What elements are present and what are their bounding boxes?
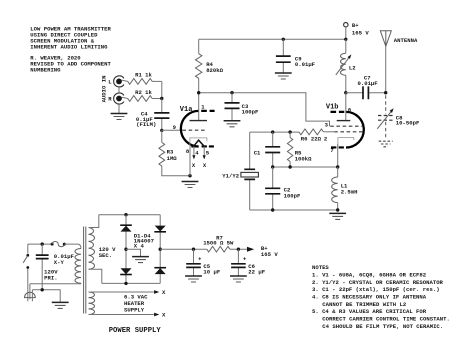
svg-text:100pF: 100pF (242, 109, 259, 116)
node bridge top (124, 213, 127, 216)
node C1 top (271, 130, 274, 133)
svg-text:4: 4 (195, 149, 199, 156)
V1a cathode sleeve box (190, 138, 207, 146)
node bridge minus (124, 248, 127, 251)
transformer T1 primary (75, 249, 81, 284)
svg-text:7: 7 (330, 147, 333, 154)
node C2 bottom (271, 208, 274, 211)
terminal B+ 165V (344, 23, 348, 27)
svg-text:22 µF: 22 µF (248, 268, 265, 275)
wire bridge top rail (99, 214, 160, 216)
transformer T1 core (84, 227, 86, 314)
inductor L2 variable (345, 39, 347, 92)
node cathode/L1 (336, 165, 339, 168)
node R5/R6 top (288, 130, 291, 133)
V1a heater pin 5 lead with arrow (203, 146, 205, 155)
svg-text:C1: C1 (254, 150, 261, 157)
svg-text:POWER SUPPLY: POWER SUPPLY (109, 327, 162, 335)
svg-text:L: L (108, 79, 112, 86)
svg-text:X: X (203, 162, 207, 169)
node C9 top rail (282, 38, 285, 41)
switch S1 (27, 244, 29, 254)
wire bridge bottom rail (102, 282, 160, 284)
svg-text:R6 22Ω: R6 22Ω (301, 135, 322, 142)
svg-text:R2 1k: R2 1k (135, 89, 152, 96)
node bridge plus (159, 248, 162, 251)
wire mains hot top (28, 243, 52, 245)
wire B+ output (160, 248, 247, 250)
svg-text:8: 8 (186, 148, 190, 155)
wire heater lead X bottom (89, 314, 154, 316)
inductor L1 (337, 167, 339, 210)
svg-text:L2: L2 (349, 64, 356, 71)
svg-text:X: X (192, 162, 196, 169)
capacitor C5 electrolytic (193, 249, 195, 276)
resistor R7 (207, 246, 230, 252)
svg-text:R: R (108, 96, 112, 103)
svg-text:165 V: 165 V (261, 251, 278, 258)
svg-text:2: 2 (324, 135, 328, 142)
ground L1 (329, 212, 346, 214)
V1b control grid pin 2 dashed (323, 131, 334, 133)
svg-text:10-50pF: 10-50pF (396, 120, 420, 127)
svg-text:SEC.: SEC. (99, 252, 112, 259)
capacitor C2 (272, 167, 274, 210)
V1a grid dashed (pin 9) (182, 129, 206, 131)
transformer T1 secondary 120V (89, 228, 95, 270)
svg-text:NOTES1. V1 - 6U8A, 6CQ8, 6GH8A: NOTES1. V1 - 6U8A, 6CQ8, 6GH8A OR ECF822… (312, 264, 450, 330)
wire antenna lead (385, 46, 387, 92)
fuse F1 (51, 243, 54, 246)
wire oscillator bottom rail (250, 209, 338, 211)
V1a heater filament (194, 140, 205, 146)
ground mains (52, 301, 69, 303)
svg-text:PRI.: PRI. (44, 275, 57, 282)
wire jack shells to ground (118, 87, 120, 114)
svg-text:AUDIO IN: AUDIO IN (101, 76, 108, 103)
node antenna/C7/C8 (384, 91, 387, 94)
node R5 bottom (288, 165, 291, 168)
V1b envelope arc (346, 112, 364, 148)
wire top rail B+ distribution (199, 38, 346, 40)
wire oscillator top node (250, 131, 290, 133)
wire heater lead X top (89, 291, 154, 293)
resistor R6 (290, 131, 299, 133)
svg-text:1MΩ: 1MΩ (167, 155, 178, 162)
ground bridge (132, 256, 149, 258)
capacitor C7 (346, 92, 386, 94)
V1b cathode pin 7 lead (337, 144, 339, 167)
resistor R1 (152, 80, 162, 82)
node R1/R2/C4 (160, 97, 163, 100)
V1b plate pin 6 lead (345, 93, 347, 121)
node L1 bottom (336, 208, 339, 211)
jack J2 R (RCA) (114, 93, 124, 104)
crystal Y1/Y2 (249, 132, 251, 210)
antenna (380, 31, 391, 47)
wire oscillator mid node to pin 7 (273, 166, 338, 168)
ground cathode (182, 181, 199, 183)
svg-text:1: 1 (201, 104, 205, 111)
V1b envelope bottom dashes (331, 146, 344, 148)
ground C9 (275, 72, 292, 74)
svg-text:Y1/Y2: Y1/Y2 (222, 172, 239, 179)
V1b envelope top dashes (331, 111, 345, 113)
svg-text:X-Y: X-Y (54, 259, 65, 266)
svg-text:+: + (198, 256, 202, 263)
op V1a envelope arc (181, 111, 199, 147)
node R3/cathode (188, 174, 191, 177)
svg-text:X 4: X 4 (134, 242, 145, 249)
svg-text:V1b: V1b (326, 104, 339, 112)
wire R1 to R2 junction (161, 81, 163, 98)
arrow B+ out (247, 247, 254, 252)
node R4/pin1 (197, 91, 200, 94)
V1b screen grid pin 3 dashed (330, 125, 363, 127)
capacitor C3 (231, 93, 233, 121)
svg-text:SUPPLY: SUPPLY (124, 307, 145, 314)
capacitor C6 electrolytic (237, 249, 239, 276)
node cap XY bottom (41, 288, 44, 291)
capacitor C8 variable dashed (385, 95, 387, 113)
svg-text:5: 5 (206, 149, 210, 156)
jack J1 L (RCA) (114, 76, 124, 87)
resistor R2 (152, 98, 162, 100)
svg-text:X: X (162, 312, 166, 319)
svg-text:X: X (162, 289, 166, 296)
wire grid node to V1a pin 9 (162, 129, 182, 131)
resistor R3 (162, 130, 190, 175)
node C3 tap (230, 91, 233, 94)
svg-text:R1 1k: R1 1k (135, 71, 152, 78)
svg-text:ANTENNA: ANTENNA (394, 37, 418, 44)
svg-text:2.5mH: 2.5mH (341, 189, 358, 196)
node C5 (192, 248, 195, 251)
svg-text:0.01µF: 0.01µF (358, 80, 379, 87)
diode D4 (right bottom) (154, 267, 166, 269)
capacitor C9 (282, 39, 284, 73)
wire bridge ground tap (126, 249, 141, 256)
diode D3 (right top) (155, 226, 166, 232)
ground C3 (224, 120, 241, 122)
wire safety ground (32, 290, 60, 303)
node C4/R3/grid (160, 129, 163, 132)
diode D1 (left top) (120, 224, 132, 226)
wire bridge left leg (125, 215, 127, 284)
V1b plate bar (337, 120, 351, 122)
ground C6 (230, 275, 247, 277)
capacitor C10 0.01uF X-Y (41, 244, 43, 290)
ground jacks (111, 113, 128, 115)
resistor R5 (289, 132, 291, 167)
capacitor C4 (161, 99, 163, 131)
svg-text:+: + (243, 256, 247, 263)
svg-text:(FILM): (FILM) (136, 121, 156, 128)
wire V1a plate node to V1b screen grid (199, 93, 330, 127)
V1a plate bar (190, 120, 208, 122)
svg-text:100pF: 100pF (284, 192, 301, 199)
node C6 (237, 248, 240, 251)
V1b cathode sleeve box (338, 138, 354, 146)
node L2/C7/plate (344, 91, 347, 94)
ground C8 dashed (379, 141, 393, 147)
svg-text:10 µF: 10 µF (203, 268, 220, 275)
svg-text:LOW POWER AM TRANSMITTERUSING: LOW POWER AM TRANSMITTERUSING DIRECT COU… (30, 25, 111, 73)
svg-text:3: 3 (325, 122, 329, 129)
transformer T1 heater winding (89, 292, 95, 315)
wire fuse to primary (64, 244, 81, 248)
svg-text:1500 Ω 5W: 1500 Ω 5W (203, 240, 234, 247)
node cap XY top (41, 242, 44, 245)
wire bridge right leg (159, 215, 161, 284)
ground C5 (185, 275, 202, 277)
wire neutral to primary (30, 283, 81, 285)
svg-text:0.01µF: 0.01µF (295, 61, 316, 68)
svg-text:165 V: 165 V (352, 30, 369, 37)
resistor R4 (198, 39, 200, 92)
capacitor C1 (272, 132, 274, 167)
node B+ rail (344, 38, 347, 41)
svg-text:100kΩ: 100kΩ (295, 155, 312, 162)
svg-text:820kΩ: 820kΩ (206, 67, 223, 74)
diode D2 (left bottom) (121, 268, 132, 274)
node bridge bottom (124, 282, 127, 285)
svg-text:B+: B+ (352, 22, 359, 29)
V1a cathode pin 8 lead (189, 146, 191, 175)
node C1/C2 (271, 165, 274, 168)
V1a plate pin 1 lead (198, 93, 200, 121)
V1a envelope bottom bar and dash (191, 145, 214, 147)
plug P1 AC (25, 292, 36, 297)
V1a envelope top dashes (201, 110, 214, 112)
V1a heater pin 4 lead with arrow (193, 146, 195, 155)
